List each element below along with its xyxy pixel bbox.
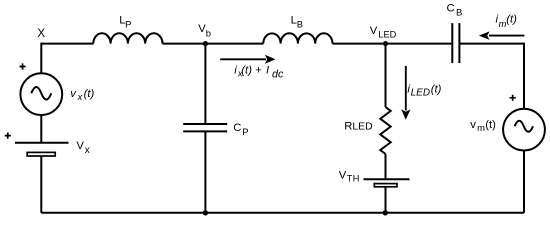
svg-text:Vb: Vb xyxy=(198,23,211,39)
wire: vx source bottom to battery Vx xyxy=(40,115,42,143)
wire: vm source bottom to bottom rail xyxy=(523,151,525,213)
inductor LP xyxy=(93,33,162,43)
svg-text:ix(t) +Idc: ix(t) +Idc xyxy=(234,64,284,80)
wire: CP down to bottom rail xyxy=(204,131,206,212)
wire: Vb node down to CP xyxy=(204,44,206,124)
arrow: iLED(t) current arrow xyxy=(401,66,410,120)
battery VTH xyxy=(364,179,410,187)
svg-text:VLED: VLED xyxy=(370,25,397,39)
plus sign of vx xyxy=(20,63,26,69)
svg-text:vx(t): vx(t) xyxy=(70,88,94,102)
svg-text:im(t): im(t) xyxy=(496,14,518,29)
inductor LB xyxy=(263,33,332,43)
svg-text:VTH: VTH xyxy=(339,170,360,184)
capacitor CB xyxy=(452,23,459,63)
wire: resistor to battery VTH xyxy=(385,154,387,179)
wire: bottom rail xyxy=(41,212,524,214)
battery Vx xyxy=(15,143,69,156)
capacitor CP xyxy=(183,124,227,131)
svg-text:Vx: Vx xyxy=(76,140,89,156)
node Vb junction dot xyxy=(203,41,208,46)
sine wave inside vm xyxy=(515,121,533,132)
svg-text:CB: CB xyxy=(447,2,463,18)
wire: top rail from CB to right corner down to vm xyxy=(459,44,524,109)
AC source vm xyxy=(503,109,545,151)
svg-text:RLED: RLED xyxy=(344,121,372,133)
wire: VLED node down to resistor RLED xyxy=(385,44,387,107)
svg-text:vm(t): vm(t) xyxy=(470,119,496,133)
wire: top rail from LP to LB xyxy=(163,43,264,45)
plus sign of vm xyxy=(510,95,516,101)
svg-text:X: X xyxy=(37,27,45,40)
resistor RLED zigzag xyxy=(380,107,390,154)
arrow: ix(t)+Idc current arrow xyxy=(220,55,275,64)
svg-text:LB: LB xyxy=(291,14,303,29)
node VLED junction dot xyxy=(383,41,388,46)
wire: top rail from LB to CB xyxy=(333,43,452,45)
junction dot at CP bottom on rail xyxy=(203,210,208,215)
svg-text:LP: LP xyxy=(119,14,131,29)
arrow: im(t) current arrow xyxy=(479,31,525,40)
svg-text:CP: CP xyxy=(233,122,248,137)
svg-text:iLED(t): iLED(t) xyxy=(407,84,441,99)
sine wave inside vx xyxy=(31,87,51,100)
wire: from vx source top, up and right to LP xyxy=(41,44,93,73)
plus sign of Vx xyxy=(5,133,11,139)
wire: battery Vx down to bottom rail xyxy=(40,156,42,213)
junction dot at bottom rail xyxy=(383,210,388,215)
AC source vx xyxy=(20,73,62,115)
wire: battery VTH down to bottom rail xyxy=(385,187,387,213)
